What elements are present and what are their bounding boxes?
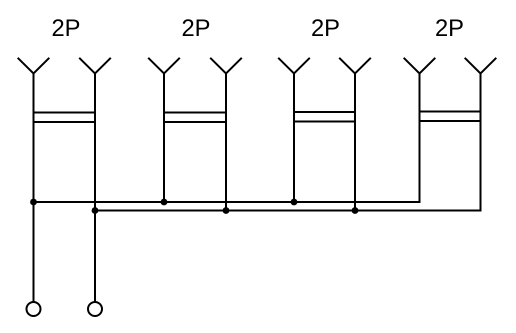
junction dot upper bus at U3 bbox=[291, 199, 298, 206]
wire lower bus bbox=[95, 210, 481, 212]
wire U2 left conductor bbox=[163, 74, 165, 203]
wire U4 left conductor with corner to upper bus bbox=[419, 74, 420, 203]
fork terminal U4 pin 2 bbox=[465, 58, 497, 74]
junction dot lower bus at U1 bbox=[92, 207, 99, 214]
svg-text:2P: 2P bbox=[52, 16, 81, 42]
wire U1 left conductor to terminal circle bbox=[33, 74, 35, 303]
junction dot upper bus at U1 bbox=[30, 199, 37, 206]
wire U3 left conductor bbox=[293, 74, 295, 203]
wire U1 right conductor to terminal circle bbox=[94, 74, 96, 303]
wire U2 right conductor bbox=[225, 74, 227, 211]
junction dot lower bus at U2 bbox=[223, 207, 230, 214]
fork terminal U2 pin 1 bbox=[148, 58, 180, 74]
svg-text:2P: 2P bbox=[311, 16, 340, 42]
wire U4 right conductor with corner to lower bus bbox=[480, 74, 481, 211]
fork terminal U3 pin 2 bbox=[339, 58, 371, 74]
terminal circle node A bbox=[27, 302, 41, 316]
2P block U2 double bar bbox=[163, 113, 227, 123]
fork terminal U2 pin 2 bbox=[210, 58, 242, 74]
junction dot lower bus at U3 bbox=[352, 207, 359, 214]
svg-text:2P: 2P bbox=[435, 16, 464, 42]
terminal circle node B bbox=[88, 302, 102, 316]
2P block U4 double bar bbox=[419, 112, 482, 122]
svg-text:2P: 2P bbox=[182, 16, 211, 42]
fork terminal U1 pin 1 bbox=[18, 58, 50, 74]
2P block U3 double bar bbox=[293, 112, 356, 122]
wire upper bus bbox=[34, 201, 420, 203]
fork terminal U3 pin 1 bbox=[278, 58, 310, 74]
fork terminal U4 pin 1 bbox=[404, 58, 436, 74]
fork terminal U1 pin 2 bbox=[79, 58, 111, 74]
junction dot upper bus at U2 bbox=[161, 199, 168, 206]
2P block U1 double bar bbox=[33, 113, 97, 123]
wire U3 right conductor bbox=[354, 74, 356, 211]
